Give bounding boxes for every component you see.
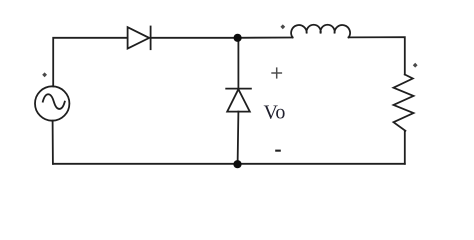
marker diamond near source <box>42 72 47 77</box>
wire top rail (node A to inductor) <box>238 37 293 39</box>
wire top rail middle (D1 to node A) <box>151 37 238 39</box>
inductor L1 <box>291 25 350 38</box>
svg-text:Vo: Vo <box>264 102 286 124</box>
wire left rail bottom (source to bottom rail) <box>52 121 54 164</box>
label + (polarity plus) <box>271 67 282 78</box>
resistor R1 <box>394 75 414 131</box>
node B (bottom junction) <box>233 160 241 168</box>
diode D2 freewheeling <box>226 89 251 112</box>
node A (top junction) <box>234 34 242 42</box>
wire middle branch bottom (diode D2 to node B) <box>237 112 240 164</box>
wire right rail bottom (resistor to bottom rail) <box>404 131 406 164</box>
marker diamond near inductor <box>280 24 285 29</box>
wire top rail right (inductor to corner) <box>349 37 405 74</box>
wire top rail left (source to diode D1) <box>53 38 127 87</box>
wire middle branch top (node A to diode D2) <box>237 38 239 89</box>
label - (polarity minus) <box>275 150 281 152</box>
diode D1 <box>128 27 151 50</box>
marker diamond near resistor <box>413 63 418 68</box>
ac source V1 <box>35 86 69 120</box>
wire bottom rail <box>53 163 405 165</box>
